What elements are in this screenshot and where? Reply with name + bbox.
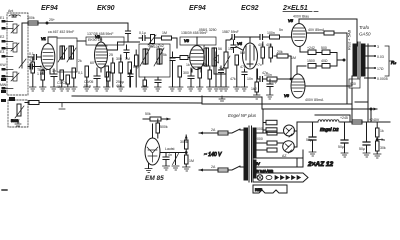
- cathode common tick: [337, 59, 344, 61]
- wire to transformer upper: [240, 129, 244, 131]
- svg-text:AZ: AZ: [282, 154, 287, 158]
- wire pot to V4 grid: [236, 47, 243, 51]
- heater line: [315, 115, 350, 122]
- coupling bottom: capacitor to V6: [260, 77, 263, 82]
- IF can 1 outline: [57, 38, 77, 72]
- svg-text:40k: 40k: [258, 43, 264, 47]
- resistor V2 e: [128, 62, 132, 87]
- ground det: [207, 87, 214, 91]
- wire EM85 row: [160, 152, 186, 154]
- capacitor IFT2 b: [155, 77, 161, 87]
- wire V5 screen: [307, 32, 324, 34]
- IF can label box over V2: [86, 37, 124, 45]
- switch lower: [228, 166, 240, 170]
- wire to grid V1: [37, 56, 42, 58]
- svg-text:137/38 458 59nF: 137/38 458 59nF: [87, 32, 113, 36]
- mains arrow upper: [199, 132, 203, 135]
- ground stage1 extra: [65, 87, 72, 91]
- svg-text:47k: 47k: [29, 58, 35, 62]
- resistor under V2 a: [85, 66, 89, 87]
- rail B2: [202, 103, 352, 105]
- svg-text:2000: 2000: [255, 137, 263, 141]
- hum coil box: [349, 79, 360, 88]
- choke Engel D2: [318, 120, 339, 122]
- tube V7 (EM85 magic eye): [145, 138, 160, 165]
- resistor B+: [352, 120, 362, 124]
- arrowhead EM85 feed: [167, 118, 171, 121]
- svg-text:50/10k: 50/10k: [149, 45, 160, 49]
- node rail B3: [370, 108, 372, 110]
- svg-text:1k: 1k: [380, 129, 384, 133]
- resistor V4 anode b: [269, 44, 273, 62]
- ground tick on rail: [219, 96, 225, 101]
- resistor EC92 cathode: [255, 69, 259, 95]
- IF1 trim arrows: [58, 48, 76, 62]
- wire left corner mark: [2, 189, 7, 191]
- capacitor AVC to V2: [126, 31, 131, 42]
- svg-text:56p: 56p: [133, 65, 139, 69]
- wire AVC drop right: [127, 23, 129, 30]
- resistor V4 anode a: [261, 42, 265, 64]
- svg-text:Rest + 5AB: Rest + 5AB: [347, 29, 352, 50]
- capacitor volume top: [231, 40, 236, 53]
- wire coupling bottom: [258, 69, 267, 79]
- svg-text:3a: 3a: [381, 138, 385, 142]
- ground pot: [223, 87, 230, 91]
- ground cap before V3: [169, 87, 176, 91]
- rail B3 with arrow: [262, 97, 377, 109]
- svg-text:+240V: +240V: [369, 118, 380, 122]
- fuse lower: [218, 168, 228, 172]
- wire antenna bus vertical: [21, 40, 23, 60]
- speaker bracket Rs: [385, 46, 392, 76]
- svg-text:40k: 40k: [266, 43, 272, 47]
- ground EC92 grid: [234, 87, 241, 91]
- IF3 coil b: [212, 48, 217, 66]
- label 2xEL51: [282, 5, 318, 12]
- svg-text:10n: 10n: [247, 77, 253, 81]
- resistor under V3 c: [198, 68, 202, 87]
- svg-text:60°: 60°: [90, 61, 96, 65]
- svg-text:+245: +245: [340, 116, 348, 120]
- wire AVC top line: [22, 22, 128, 24]
- wire AVC drop left: [21, 23, 23, 40]
- svg-text:0,1: 0,1: [78, 71, 83, 75]
- ground EM85 b: [172, 166, 179, 170]
- svg-text:EK90 1M: EK90 1M: [88, 38, 102, 42]
- IF1 coil a: [60, 46, 65, 59]
- resistor V5 screen: [324, 31, 334, 35]
- resistor NF branch: [263, 109, 277, 133]
- IF1 coil b: [69, 46, 74, 59]
- ground cap2: [341, 153, 348, 157]
- wire AZ12 filament corner: [297, 150, 303, 166]
- svg-text:+242: +242: [307, 46, 315, 50]
- svg-text:V3: V3: [184, 38, 190, 43]
- ground bleeder: [374, 154, 382, 158]
- resistor phase splitter horizontal: [274, 54, 291, 58]
- svg-text:2000: 2000: [255, 127, 263, 131]
- svg-text:50k: 50k: [145, 112, 151, 116]
- ground V3 c: [197, 87, 204, 91]
- capacitor antenna coupling: [34, 55, 37, 60]
- capacitor V2 screen: [124, 45, 129, 59]
- svg-text:1n: 1n: [52, 69, 56, 73]
- svg-text:3: 3: [377, 45, 379, 49]
- svg-text:6N: 6N: [57, 85, 62, 89]
- capacitor under V2: [94, 68, 100, 87]
- wire V6 anode: [305, 76, 352, 86]
- wire V1 anode to IF1: [48, 37, 57, 44]
- rectifier tube AZ12 upper: [284, 125, 295, 137]
- svg-text:EF94: EF94: [189, 5, 206, 12]
- svg-text:400V 85mA: 400V 85mA: [305, 98, 324, 102]
- svg-text:Ant: Ant: [8, 9, 13, 13]
- svg-text:0.03: 0.03: [377, 55, 384, 59]
- IF3 coil a: [204, 48, 209, 66]
- tick 3a on bleeder: [379, 139, 383, 141]
- antenna small cap top: [12, 15, 16, 17]
- cathode network V5 row: [300, 47, 337, 55]
- switch upper: [228, 129, 240, 133]
- svg-text:500: 500: [321, 46, 327, 50]
- power transformer primary: [244, 128, 248, 180]
- ground under V4: [241, 87, 248, 91]
- svg-text:1M: 1M: [162, 31, 167, 35]
- svg-text:47k: 47k: [202, 63, 208, 67]
- detector diode cluster: [208, 66, 212, 87]
- output transformer secondary: [362, 44, 366, 76]
- wire antenna to V1: [28, 56, 33, 58]
- capacitor V2 lower extra: [128, 70, 133, 87]
- wire IF3 down to pot: [214, 66, 226, 74]
- wire V5 anode over top: [299, 19, 357, 46]
- ground V3 b: [188, 87, 195, 91]
- arrow EM85 bleed up: [185, 135, 188, 139]
- ground V3 a: [177, 87, 184, 91]
- svg-text:17Ω: 17Ω: [377, 67, 384, 71]
- wire EM85 feed: [143, 118, 170, 120]
- resistor V2-IFT2 extra1: [135, 50, 139, 87]
- ground V2 b: [94, 87, 101, 91]
- mains line lower: [199, 169, 218, 171]
- wire coupling top: [250, 37, 270, 43]
- resistor V3 grid: [180, 56, 188, 60]
- capacitor before V3: [170, 52, 175, 69]
- resistor V2 d: [119, 55, 123, 87]
- svg-text:2×AZ 12: 2×AZ 12: [307, 161, 333, 168]
- wire to V5 grid: [280, 36, 292, 38]
- bleeder resistor upper: [376, 122, 380, 137]
- wire IFT2 to V3: [170, 57, 180, 59]
- svg-text:EK90: EK90: [97, 5, 115, 12]
- grid resistor chains under stage 1: [31, 58, 35, 87]
- AGC potentiometer: [145, 35, 156, 46]
- svg-text:4n: 4n: [168, 153, 172, 157]
- svg-text:1M: 1M: [189, 159, 194, 163]
- svg-text:+7v: +7v: [256, 63, 262, 67]
- svg-text:Engel NF plus: Engel NF plus: [228, 113, 257, 118]
- svg-text:50μ: 50μ: [306, 138, 312, 142]
- EM85 feed resistor: [150, 117, 161, 121]
- V3 cathode wires: [192, 69, 201, 72]
- wire cap V3 down: [172, 68, 174, 87]
- wire V3 anode up: [196, 37, 198, 46]
- svg-text:MW: MW: [0, 83, 7, 87]
- svg-text:460: 460: [116, 84, 122, 88]
- svg-text:1M: 1M: [291, 56, 296, 60]
- REP box: [253, 185, 287, 193]
- svg-text:E1: E1: [0, 16, 4, 20]
- svg-text:100n: 100n: [267, 31, 275, 35]
- resistor HT mid: [267, 141, 277, 145]
- capacitor under V4: [242, 69, 247, 87]
- svg-text:1500: 1500: [307, 59, 315, 63]
- svg-text:EC92: EC92: [241, 5, 259, 12]
- output transformer core: [358, 42, 360, 78]
- cathode network V6 row: [297, 64, 337, 75]
- svg-text:400V Blau: 400V Blau: [293, 15, 309, 19]
- wire phono long: [25, 102, 202, 105]
- ground EC92 cap: [267, 95, 274, 99]
- resistor under V3 a: [178, 66, 182, 87]
- resistor between V2 stages extra: [111, 58, 115, 87]
- ground stage1 b: [59, 87, 66, 91]
- svg-text:100n: 100n: [264, 73, 272, 77]
- svg-text:0,1μ: 0,1μ: [84, 84, 91, 88]
- pot EM85: [173, 153, 179, 165]
- wire to AZ12 upper: [277, 132, 284, 134]
- wire V2 anode to IFT2: [108, 42, 140, 50]
- tube V6 (EL51 lower): [291, 74, 305, 98]
- ground cap1: [309, 152, 316, 156]
- ground V2 d: [118, 87, 125, 91]
- svg-text:2A: 2A: [211, 128, 216, 132]
- svg-text:EF94: EF94: [41, 5, 58, 12]
- phono terminal: [1, 97, 15, 102]
- svg-text:1 MV: 1 MV: [37, 72, 46, 76]
- ground V2 a: [84, 87, 91, 91]
- antenna trimmer extra: [19, 59, 26, 68]
- HT winding wire mid: [256, 142, 267, 144]
- detector diode: [214, 52, 219, 66]
- resistor grid V6: [267, 77, 277, 81]
- resistor EM85 top: [156, 119, 160, 138]
- svg-text:Engel D2: Engel D2: [320, 127, 339, 132]
- svg-text:500k: 500k: [160, 125, 168, 129]
- svg-text:25+: 25+: [49, 18, 55, 22]
- smoothing cap 3: [363, 122, 370, 153]
- svg-text:1k: 1k: [186, 63, 190, 67]
- svg-text:300: 300: [116, 57, 122, 61]
- antenna input shield dashed box: [7, 13, 28, 95]
- svg-text:50μ: 50μ: [338, 145, 344, 149]
- wire EM85 tube leg: [148, 164, 150, 169]
- svg-text:40V 85mA: 40V 85mA: [308, 28, 325, 32]
- IFT2 coil a: [143, 49, 148, 64]
- svg-text:2×EL51: 2×EL51: [282, 5, 308, 12]
- svg-text:GA50: GA50: [359, 32, 371, 37]
- IFT2 coil b: [157, 49, 162, 64]
- ground V2 c: [104, 87, 111, 91]
- svg-text:1M: 1M: [125, 57, 130, 61]
- antenna coil arrows: [11, 25, 19, 81]
- resistor grid V5: [270, 35, 280, 39]
- capacitor detector out: [219, 66, 224, 87]
- svg-text:REP: REP: [255, 188, 263, 192]
- rail ground long: [72, 96, 262, 97]
- capacitor EM85 a: [163, 153, 169, 166]
- svg-text:47k: 47k: [230, 77, 236, 81]
- wire V1 grid lower: [28, 66, 41, 68]
- resistor EM85 c: [185, 135, 189, 153]
- ground stage1 c: [71, 87, 78, 91]
- ground IFT2 b: [155, 87, 162, 91]
- resistor stage1 extra: [66, 75, 70, 87]
- tube V4 (EC92): [243, 43, 258, 69]
- AGC resistor 1M: [155, 36, 178, 40]
- svg-text:1M: 1M: [228, 47, 233, 51]
- wire AGC down: [176, 38, 178, 48]
- svg-text:300: 300: [183, 71, 189, 75]
- svg-text:6,3V 0,3A AW2: 6,3V 0,3A AW2: [253, 169, 273, 173]
- rectifier tube AZ12 lower: [283, 141, 295, 153]
- resistor under V2 c: [105, 66, 109, 87]
- output transformer primary: [353, 44, 357, 76]
- wire to transformer lower: [240, 166, 244, 168]
- tube V3 (EF94): [190, 46, 205, 70]
- power transformer secondary: [253, 128, 256, 158]
- smoothing cap 2: [341, 122, 348, 153]
- svg-text:50μ: 50μ: [359, 147, 365, 151]
- svg-text:ca 467 452 59nF: ca 467 452 59nF: [48, 30, 74, 34]
- wire V2 top: [100, 37, 102, 42]
- wire phase splitter vertical: [290, 56, 292, 79]
- svg-text:E3: E3: [0, 50, 4, 54]
- resistor stage1 c: [72, 68, 76, 87]
- rail vertical join: [201, 96, 203, 104]
- ground under V1: [40, 87, 47, 91]
- svg-text:V4: V4: [237, 41, 243, 46]
- capacitor under V1: [51, 69, 57, 87]
- wire to AZ12 lower: [277, 142, 283, 144]
- svg-text:V6: V6: [284, 93, 290, 98]
- dial lamps box: [253, 173, 308, 182]
- bleeder node: [376, 139, 378, 141]
- svg-text:V1: V1: [41, 36, 46, 41]
- svg-text:KW: KW: [0, 63, 6, 67]
- IF transformer 2 outline: [139, 44, 170, 77]
- svg-text:.058/1 3250: .058/1 3250: [198, 28, 217, 32]
- ground detector: [213, 87, 220, 91]
- svg-text:1587 59nF: 1587 59nF: [222, 30, 239, 34]
- svg-text:0,1μ: 0,1μ: [139, 31, 146, 35]
- capacitor EC92 cathode: [267, 79, 273, 95]
- svg-text:2k: 2k: [78, 59, 82, 63]
- svg-text:5n: 5n: [279, 28, 283, 32]
- phono tap: [59, 103, 65, 109]
- svg-text:Trafo: Trafo: [359, 25, 370, 30]
- ground IFT2 a: [142, 87, 149, 91]
- arrowhead rail B3: [374, 108, 378, 111]
- node phase: [290, 78, 292, 80]
- AGC cap before pot: [139, 36, 145, 41]
- svg-text:0,1: 0,1: [29, 52, 34, 56]
- resistor EM85 d: [185, 153, 189, 168]
- resistor EC92 grid: [235, 55, 239, 87]
- wire transformer box to B+: [367, 102, 369, 122]
- smoothing cap 1: [309, 122, 316, 152]
- svg-text:20k: 20k: [277, 50, 283, 54]
- ground EM85 tube: [145, 169, 152, 173]
- cathode node: [343, 59, 345, 61]
- capacitor under V3: [188, 68, 194, 87]
- wire detector: [215, 66, 217, 87]
- svg-text:300k: 300k: [180, 140, 188, 144]
- resistor HT low: [267, 148, 277, 152]
- svg-text:4V: 4V: [255, 161, 260, 166]
- antenna series cap2: [28, 64, 36, 69]
- wire screen to rail: [334, 33, 347, 104]
- wire terminal stubs: [6, 22, 14, 89]
- svg-text:5M: 5M: [240, 51, 245, 55]
- svg-text:56: 56: [218, 47, 222, 51]
- IFT2 trim arrows: [140, 48, 164, 66]
- svg-text:25: 25: [109, 53, 113, 57]
- svg-text:2A: 2A: [211, 165, 216, 169]
- resistor IFT2 bottom: [143, 77, 147, 87]
- jack terminals left: [1, 78, 6, 93]
- svg-text:50μ: 50μ: [271, 80, 277, 84]
- svg-text:Lautst: Lautst: [165, 147, 175, 151]
- resistor under V1: [41, 69, 45, 87]
- ground EM85 a: [163, 166, 170, 170]
- capacitor det to EC92 grid line: [226, 35, 251, 46]
- phono input dashed box: [8, 100, 28, 127]
- resistor V2 lower extra: [107, 72, 111, 87]
- mains arrow lower: [199, 169, 203, 172]
- HT wire low: [256, 149, 267, 151]
- power transformer core: [249, 126, 252, 182]
- node on AVC line: [46, 22, 48, 24]
- svg-text:V5: V5: [288, 18, 294, 23]
- svg-text:0.0005: 0.0005: [377, 77, 388, 81]
- phono pot: [15, 104, 24, 118]
- svg-text:300k: 300k: [27, 16, 35, 20]
- resistor HT upper: [267, 131, 277, 135]
- wire transformer down left: [351, 88, 353, 122]
- tap terminals: [374, 45, 376, 79]
- V2 cathode wires: [97, 68, 105, 72]
- svg-text:600: 600: [350, 82, 356, 86]
- wire node down: [370, 109, 372, 122]
- B+ line after rectifier: [297, 121, 390, 123]
- svg-text:47k: 47k: [240, 65, 246, 69]
- mains line upper: [199, 132, 218, 134]
- svg-text:~ 140 V: ~ 140 V: [204, 152, 222, 158]
- heater 4V box: [253, 158, 303, 167]
- HT winding wire upper: [256, 132, 267, 134]
- ground cap3: [363, 153, 370, 157]
- ground under cap V1: [51, 87, 58, 91]
- svg-text:5k: 5k: [163, 53, 167, 57]
- svg-text:EM 85: EM 85: [145, 175, 164, 182]
- antenna coils: [13, 24, 17, 33]
- wire EM85 top: [152, 124, 154, 138]
- tube V1 (EF94): [41, 44, 55, 70]
- svg-text:30k: 30k: [380, 146, 386, 150]
- svg-text:a: a: [203, 44, 205, 48]
